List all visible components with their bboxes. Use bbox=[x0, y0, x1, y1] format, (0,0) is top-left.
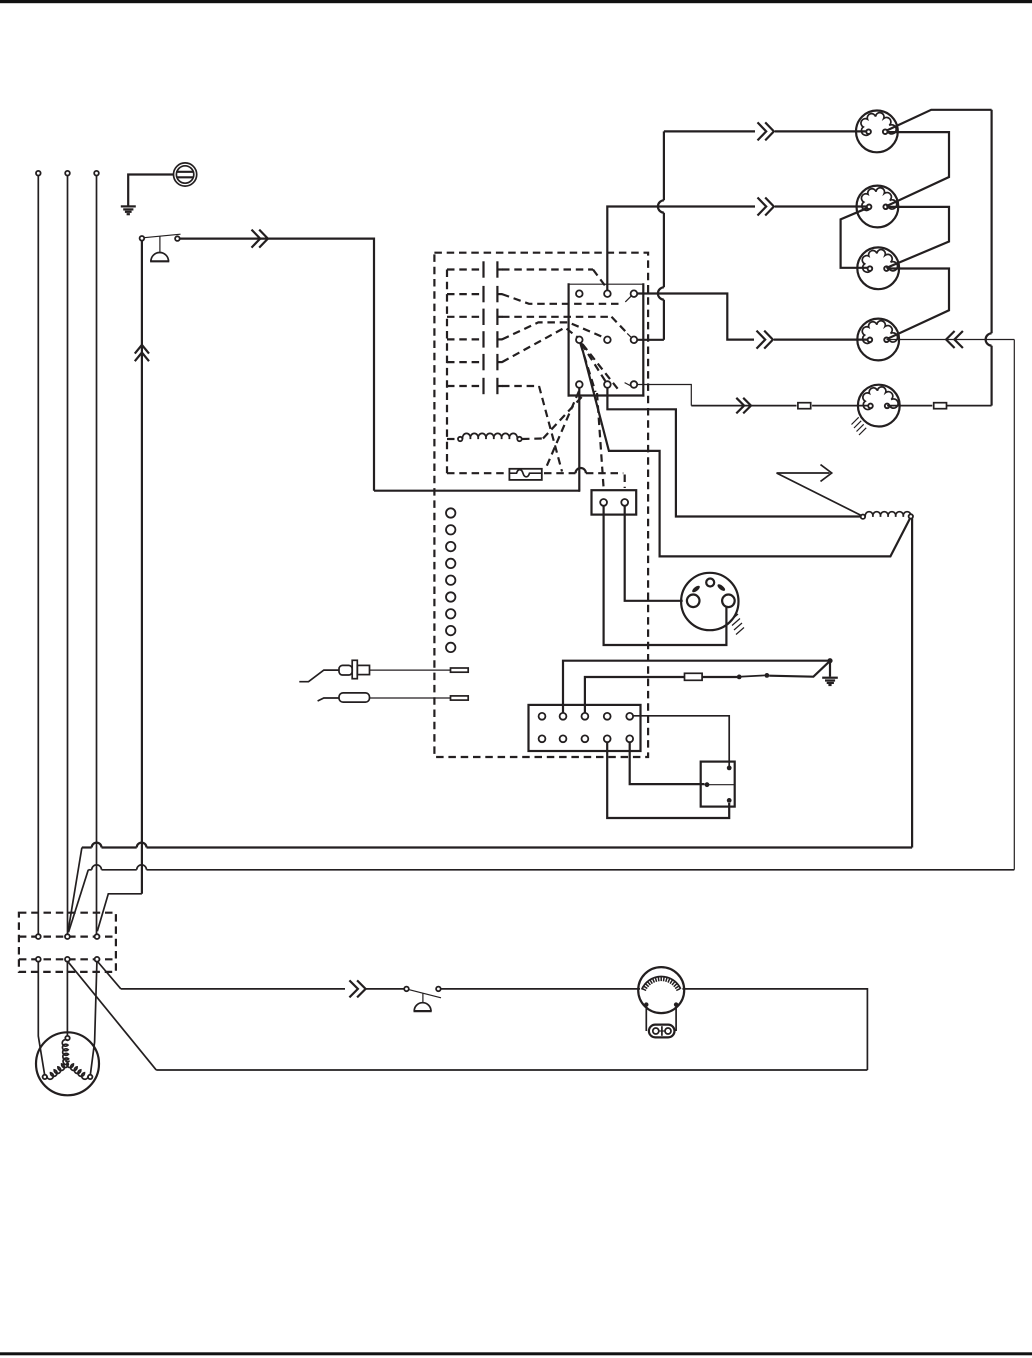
wire B2 right to DIN connector bbox=[625, 506, 683, 601]
clock terminal block B3 bbox=[529, 705, 641, 751]
dashed wire row6 to F1 line bbox=[539, 386, 562, 472]
connector chevron on M1 row bbox=[758, 122, 774, 140]
power line L3 bbox=[94, 171, 99, 934]
chassis hatch at J2 bbox=[730, 614, 744, 635]
contact row 4 wire bbox=[447, 322, 604, 339]
top border bar bbox=[0, 0, 1032, 3]
switch S1 bbox=[140, 234, 181, 261]
dashed wire U1 fan to box B2 left terminal bbox=[597, 393, 604, 487]
wire M2 left to M3 left bbox=[841, 208, 870, 268]
plug terminal P5 bottom bbox=[65, 957, 70, 962]
wire P6 to motor M6 right winding bbox=[90, 962, 97, 1075]
wire M4 right to right edge riser bbox=[887, 339, 1015, 341]
dashed wire coil L11 up-right bbox=[522, 395, 584, 440]
wire junction to ground G2 bbox=[829, 661, 831, 677]
connector chevron on M2 row bbox=[758, 198, 774, 216]
long bus wire to right edge riser bbox=[88, 865, 1014, 870]
wire clock bus lower with fuse F2 and switch S3 bbox=[585, 662, 829, 713]
junction box B2 bbox=[592, 490, 637, 514]
dashed wire U1-3A to F1 line bbox=[545, 391, 579, 470]
broil coil L10 bbox=[861, 512, 913, 519]
power line L1 bbox=[36, 171, 41, 934]
ground G2 bbox=[822, 678, 838, 685]
wire S1 to node A bbox=[180, 239, 374, 491]
wire U1-1C to M4 row bbox=[637, 294, 754, 340]
convection feed wire bbox=[121, 988, 345, 990]
wire M1 right loop to far riser bbox=[887, 110, 992, 131]
DIN connector J2 bbox=[681, 573, 738, 630]
fan motor M5 bbox=[858, 385, 900, 427]
wire S1 pivot down bbox=[141, 241, 143, 894]
contact row 1 wire bbox=[447, 270, 606, 288]
convection motor M6 three phase bbox=[36, 1032, 99, 1095]
plug row dashed wires bbox=[19, 937, 116, 960]
connector chevron on M4 row bbox=[757, 331, 773, 349]
wire U1-1B up to fan motor M2 row bbox=[607, 207, 755, 291]
thermal fuse F1 bbox=[447, 469, 542, 480]
plug terminal P6 bottom bbox=[95, 957, 100, 962]
wire P5 to motor M6 top winding bbox=[66, 962, 68, 1036]
diagonal feeders from plug terminal P2 bbox=[68, 848, 88, 933]
connector chevron on M5 row bbox=[736, 398, 751, 414]
common riser wire with hops (M1 row to U1-2C) bbox=[637, 131, 664, 339]
wire U1-3C thin to M5 row bbox=[637, 385, 691, 406]
contact row 2 wire bbox=[447, 294, 622, 304]
fan motor M2 bbox=[857, 186, 899, 228]
U1 terminal 3C with blade bbox=[625, 381, 638, 388]
plug terminal P4 bottom bbox=[36, 957, 41, 962]
supply plug dashed box B5 bbox=[19, 913, 116, 972]
contact row 3 wire bbox=[447, 317, 628, 334]
U1 terminal 2C with blade bbox=[627, 333, 637, 343]
wire B3 bottom5 to K7 left bbox=[630, 742, 705, 784]
oven sensor probe P2 bbox=[318, 693, 469, 702]
wire M1 right to M2 right bbox=[886, 132, 949, 206]
run capacitor C1 bbox=[649, 1025, 675, 1038]
wire S2 to fan F3 bbox=[441, 988, 640, 990]
contact row 6 wire bbox=[447, 385, 539, 387]
connector chevron female on M4 right wire bbox=[946, 331, 963, 348]
ground G1 bbox=[121, 206, 136, 214]
fan motor M4 bbox=[857, 319, 899, 361]
wire P4 to motor M6 left winding bbox=[38, 962, 44, 1075]
oven sensor probe P1 bbox=[299, 660, 468, 681]
contact row 5 wire bbox=[447, 328, 579, 363]
fan motor M3 bbox=[857, 247, 899, 289]
connector chevron on convection wire bbox=[349, 980, 365, 997]
inner dashed bus left edge bbox=[446, 270, 448, 474]
wire node A to terminal T7 bbox=[374, 490, 580, 492]
wire dogleg to plug terminal P3 bbox=[97, 894, 142, 931]
dashed wire F1 to box B2 with hop bbox=[544, 468, 625, 488]
wire F3 to right loop bbox=[682, 989, 867, 1070]
wire P5 diagonal to bottom return bus bbox=[68, 962, 156, 1070]
wire M2 right to M3 right bbox=[886, 207, 949, 268]
wire J1 to ground bbox=[128, 175, 173, 206]
fan motor M1 bbox=[856, 110, 898, 152]
M5 row wire bbox=[691, 405, 871, 407]
wire B3 bottom4 to K7 bottom bbox=[607, 742, 729, 818]
relay box K7 bbox=[701, 762, 735, 807]
wire M1 row from common riser bbox=[664, 130, 755, 132]
junction node dot bbox=[827, 658, 832, 663]
bottom return bus bbox=[156, 1069, 867, 1071]
wire U1-3B to broil coil L10 bbox=[607, 388, 860, 517]
wire P6 diagonal to convection feed bbox=[98, 962, 121, 989]
wire M5 right with lug to far riser bbox=[887, 403, 992, 409]
cooling fan F3 with capacitor bbox=[638, 967, 684, 1031]
selector switch box U1 bbox=[568, 283, 645, 396]
pointer arrow symbol bbox=[777, 465, 862, 516]
terminal lug on M5 row left bbox=[798, 403, 811, 409]
power line L2 bbox=[65, 171, 70, 934]
chassis hatch at M5 bbox=[852, 417, 867, 435]
wire M3 right to M4 right bbox=[886, 269, 949, 340]
right edge riser wire bbox=[1013, 340, 1015, 870]
connector chevron up on S1 drop wire bbox=[135, 345, 149, 361]
wire B2 left down to bus bbox=[604, 506, 727, 645]
plug terminal P2 top bbox=[65, 934, 70, 939]
far riser wire with hop bbox=[986, 110, 992, 406]
control housing outer dashed box bbox=[434, 253, 648, 757]
connector chevron on S1 wire bbox=[252, 230, 268, 248]
plug terminal P1 top bbox=[36, 934, 41, 939]
wire clock bus upper to ground junction bbox=[563, 661, 830, 713]
solid link U1-2A diagonal to lower bus bbox=[581, 343, 910, 556]
bottom border line bbox=[0, 1352, 1032, 1355]
wire B3 top5 to relay K7 bbox=[633, 716, 729, 766]
U1 terminal 1B bbox=[604, 290, 611, 297]
receptacle J1 bbox=[174, 163, 197, 186]
indicator terminal column bbox=[446, 508, 455, 652]
U1 terminal 2A bbox=[576, 337, 583, 344]
U1 terminal 2B bbox=[604, 337, 611, 344]
plug terminal P3 top bbox=[95, 934, 100, 939]
wire U1-3A down to T7 junction bbox=[578, 388, 581, 491]
dashed fan inside U1 from 2A bbox=[581, 344, 620, 393]
switch S2 bbox=[404, 987, 441, 1011]
solenoid coil L11 bbox=[447, 433, 522, 441]
U1 terminal 3B bbox=[604, 381, 611, 388]
wire coil right down to lower loop bbox=[911, 519, 913, 848]
U1 terminal 3A bbox=[576, 381, 583, 388]
U1 terminal 1C with blade bbox=[625, 290, 637, 301]
long bus wire to coil riser bbox=[82, 843, 912, 848]
contact bars K1-K6 bbox=[484, 261, 503, 394]
U1 terminal 1A bbox=[576, 290, 583, 297]
